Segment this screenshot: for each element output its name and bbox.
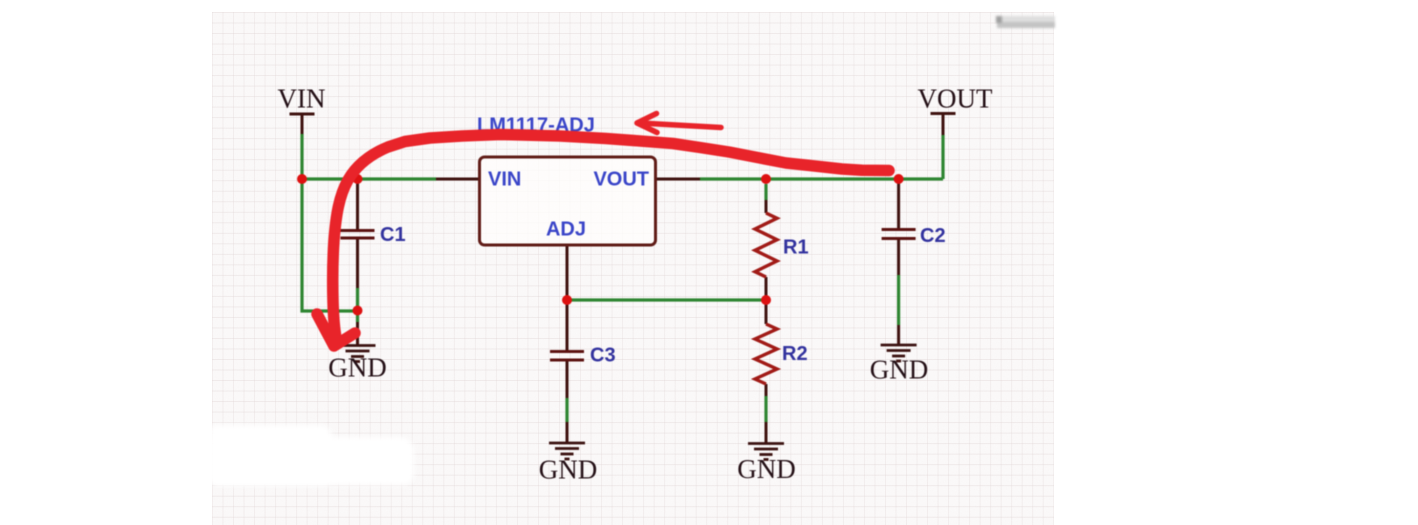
svg-text:C2: C2: [920, 225, 946, 247]
svg-text:C1: C1: [380, 224, 406, 246]
svg-text:GND: GND: [737, 454, 796, 484]
svg-text:VOUT: VOUT: [918, 84, 993, 114]
svg-text:GND: GND: [539, 455, 598, 485]
svg-text:VIN: VIN: [488, 169, 521, 191]
svg-text:GND: GND: [328, 353, 387, 383]
svg-text:GND: GND: [870, 355, 929, 385]
svg-text:ADJ: ADJ: [546, 219, 586, 241]
svg-text:R2: R2: [782, 343, 808, 365]
svg-text:C3: C3: [590, 345, 616, 367]
svg-text:VOUT: VOUT: [593, 169, 649, 191]
svg-text:VIN: VIN: [278, 84, 326, 114]
svg-text:R1: R1: [783, 237, 809, 259]
